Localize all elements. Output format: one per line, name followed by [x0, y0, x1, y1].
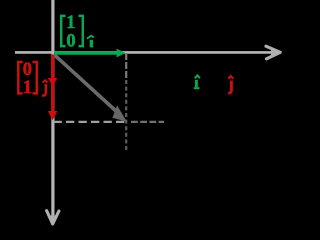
- vector j-hat (red, from origin down to (0,-1)): [48, 55, 58, 121]
- diagonal vector to (1,-1): [54, 54, 127, 122]
- green matrix right bracket: [79, 16, 83, 46]
- dashed horizontal line right of point (1,-1): [131, 121, 164, 123]
- svg-text:1: 1: [66, 13, 75, 33]
- dashed vertical line at x=1: [125, 53, 127, 79]
- svg-text:1: 1: [23, 78, 32, 98]
- x-axis: [15, 46, 280, 59]
- red matrix right bracket: [33, 62, 37, 93]
- green matrix [1;0]: left bracket: [61, 16, 65, 46]
- extra red arrowhead mid-shaft: [48, 78, 57, 87]
- vector i-hat (green, from origin to (1,0)): [54, 49, 126, 58]
- red matrix [0;1]: left bracket: [18, 62, 22, 93]
- y-axis: [47, 0, 59, 224]
- svg-text:0: 0: [66, 32, 75, 52]
- standalone j-hat glyph (red, right side): [228, 76, 233, 93]
- standalone i-hat glyph (green, right side): [194, 75, 200, 88]
- dashed horizontal line left of point (1,-1): [54, 121, 126, 123]
- i-hat label near green vector: [87, 36, 94, 48]
- j-hat label near red vector: [42, 80, 48, 95]
